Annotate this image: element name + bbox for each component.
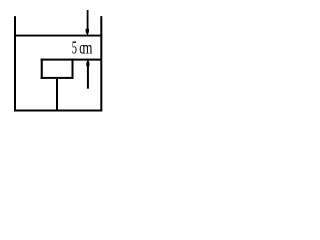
container right wall bbox=[100, 16, 102, 111]
dimension down-arrow shaft bbox=[87, 10, 89, 31]
block left edge bbox=[41, 59, 43, 79]
block right edge bbox=[72, 59, 74, 79]
dimension up-arrow shaft bbox=[87, 61, 89, 89]
water surface line bbox=[14, 35, 102, 37]
dimension up-arrow head bbox=[86, 62, 89, 66]
container left wall bbox=[14, 16, 16, 111]
string from block to container bottom bbox=[56, 79, 58, 111]
dimension down-arrow head bbox=[86, 29, 89, 36]
svg-text:m: m bbox=[82, 39, 92, 58]
svg-text:5: 5 bbox=[72, 39, 77, 59]
block bottom edge bbox=[41, 77, 74, 79]
block top edge / dimension extension line bbox=[41, 59, 102, 61]
container bottom bbox=[14, 110, 102, 112]
